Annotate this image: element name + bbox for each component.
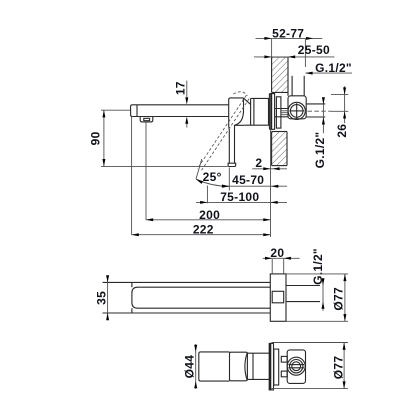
dashed lever top rotated [233,92,247,96]
dimension 200 [146,208,271,222]
svg-text:45-70: 45-70 [232,173,264,187]
wall section hatch upper [272,57,288,96]
grip collar bottom view [230,352,248,381]
svg-text:25-50: 25-50 [298,43,330,57]
dimension 2 [252,156,287,170]
aerator [140,117,153,122]
spout plan silhouette [103,282,271,313]
svg-text:20: 20 [270,246,284,260]
escutcheon bottom view [269,343,273,390]
svg-text:35: 35 [94,291,108,305]
valve body [288,96,306,119]
escutcheon plan [270,274,286,321]
outlet pipe stub [306,104,331,117]
dashed lever rotated 25deg [197,95,249,172]
dimension diameter 44 [183,344,198,389]
svg-text:17: 17 [173,81,187,95]
dimension 25-50 [254,43,335,58]
dimension 222 [132,223,271,237]
svg-text:Ø77: Ø77 [332,356,346,380]
connection square [272,291,284,303]
dimension 20 [263,246,300,274]
vertical inlet pipe [292,76,304,96]
svg-text:222: 222 [193,223,214,237]
dimension 90 [88,110,227,166]
handle lever [228,98,244,167]
extension lines spout [132,117,146,235]
svg-text:Ø44: Ø44 [183,355,197,379]
flange bottom view [274,349,279,385]
valve port bottom view [287,357,305,375]
svg-text:G.1/2": G.1/2" [311,248,325,285]
svg-text:2: 2 [255,156,262,170]
dimension 26 [331,86,349,137]
label G.1/2 inch top inlet [305,61,352,75]
svg-text:G.1/2": G.1/2" [313,132,327,169]
spout plan top face [132,287,270,308]
dimension 45-70 [222,173,287,188]
svg-text:26: 26 [335,124,349,138]
cartridge housing [244,98,269,125]
spout side view [131,105,229,117]
svg-text:G.1/2": G.1/2" [315,61,352,75]
svg-text:75-100: 75-100 [220,190,259,204]
dimension 17 [173,81,188,128]
valve side port [288,102,305,119]
svg-text:25°: 25° [203,170,222,184]
handle grip bottom view [199,352,230,381]
dimension diameter 77 middle [286,274,348,321]
reference line escutcheon face [270,130,272,237]
dimension diameter 77 bottom [272,343,348,389]
dimension 25 degrees [196,159,229,203]
pipe stubs bottom view [281,356,287,376]
sliding flange [276,97,281,128]
threaded shank [275,109,288,117]
escutcheon plate [269,94,274,130]
svg-text:90: 90 [88,131,102,145]
label G.1/2 inch middle [311,248,325,311]
wall section hatch lower [272,132,287,166]
dimension 35 [94,275,109,320]
valve body bottom view [287,350,305,384]
pipe plan [286,286,320,302]
label G.1/2 inch right [313,97,327,168]
cartridge bottom view [247,353,271,379]
dimension 75-100 [196,190,287,204]
svg-text:200: 200 [199,208,220,222]
svg-text:Ø77: Ø77 [332,287,346,311]
dimension 52-77 [256,26,323,67]
svg-text:52-77: 52-77 [272,26,304,40]
